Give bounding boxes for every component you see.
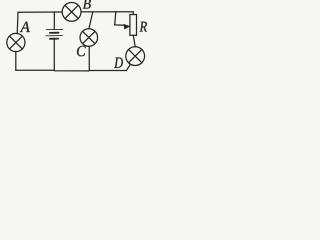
wire resistor to lamp D [133,35,135,46]
wire left branch lower [15,51,17,70]
wire rheostat slider horizontal [115,24,125,26]
wire rheostat slider drop [115,12,116,25]
label D [114,58,123,68]
label A [20,22,30,32]
battery [46,29,63,38]
resistor R [130,15,137,36]
lamp B [62,3,81,22]
wire battery branch upper [53,12,55,29]
wire lamp D to bottom rail diagonal [126,64,130,70]
label C [77,46,86,56]
lamp C [80,29,98,47]
wire top rail right segment [81,11,133,13]
lamp A [7,33,25,51]
wire bottom rail [16,69,127,72]
lamp D [126,47,145,66]
wire lamp C branch lower [88,46,90,70]
wire resistor top stub [132,12,134,15]
wire battery branch lower [53,39,55,70]
label R [140,22,147,32]
wire left branch upper [16,12,19,34]
label B [83,0,91,9]
wire top rail left segment [18,11,62,13]
rheostat slider arrowhead [124,24,130,29]
wire lamp C branch upper [89,12,93,29]
